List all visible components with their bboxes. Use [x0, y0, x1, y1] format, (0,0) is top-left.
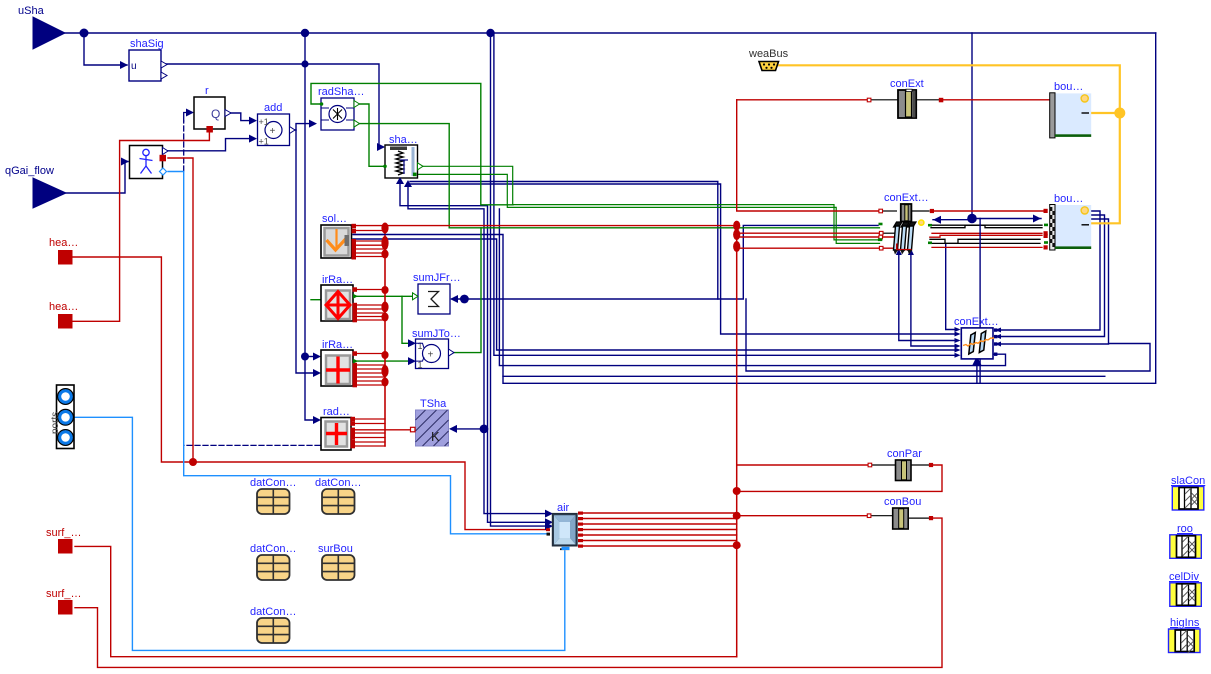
block conExtWinFra glass [954, 316, 999, 359]
arrow into irRa2 a [313, 353, 321, 361]
wire red bus to conExtWin row3 [737, 236, 897, 238]
wire black step conExtWin to bou2 b [931, 225, 1042, 228]
node red bus junction air [733, 541, 741, 549]
node sumJFr junction [460, 295, 469, 304]
block slaCon [1171, 475, 1205, 510]
node uSha junction 3 [486, 29, 494, 37]
wire red rad to TSha [353, 429, 410, 431]
wire sha long navy second to glass in2 [410, 184, 958, 334]
svg-text:hea…: hea… [49, 301, 78, 313]
wire glass bottom up arrow from long line [976, 362, 978, 383]
wire add output branch down to irRa2 second input [296, 130, 318, 373]
wire uSha to shaSig.u [84, 33, 127, 65]
svg-text:datCon…: datCon… [250, 543, 296, 555]
arrow into glass right 1 [995, 328, 1001, 333]
wire glass right lower stub loop back left [499, 209, 1005, 366]
block conBou [867, 496, 933, 529]
svg-text:1: 1 [418, 341, 423, 351]
wire cyan figure block latent to air side stub [168, 172, 546, 534]
wire yellow branch to bou1 [1089, 112, 1120, 114]
block datCon3 [250, 543, 296, 580]
svg-text:u: u [131, 61, 137, 72]
block sumJTo [412, 328, 461, 370]
block roo [1170, 523, 1202, 558]
node red bus junction win1 [733, 229, 740, 240]
wire sol top navy long loop via right edge [353, 33, 1156, 383]
svg-text:sha…: sha… [389, 134, 418, 146]
svg-text:roo: roo [1177, 523, 1193, 535]
wire qGai_flow to figure block [66, 162, 128, 194]
connector hea1 [49, 237, 78, 265]
wire red sol stub rows [354, 230, 385, 232]
node uSha junction 1 [80, 29, 89, 38]
wire red air outputs to bus 7 lines [583, 512, 737, 514]
ARROW-HEADS [120, 61, 1041, 530]
wire navy loop from sumJFr row down around to nest corner [746, 299, 1150, 371]
wire red vertical bus main right [736, 226, 738, 657]
svg-text:+: + [428, 350, 434, 361]
arrow into radSha [309, 120, 317, 128]
arrow into shaSig.u [120, 61, 128, 69]
connector surf1 [46, 527, 81, 554]
svg-text:datCon…: datCon… [250, 606, 296, 618]
node red bus junction conBou [733, 512, 741, 520]
wire green irRa1 to sumJFr [353, 295, 415, 297]
node shaSig line junction [301, 60, 308, 67]
wire sha bottom port 1 to air input 2 [400, 181, 548, 522]
wire TSha measurement line [451, 428, 484, 430]
wire solid top of dashed into r input [184, 113, 189, 122]
arrow into add.u1 [249, 117, 257, 125]
arrow into sumJFr right [450, 295, 458, 303]
svg-text:conExt…: conExt… [884, 192, 929, 204]
svg-text:conBou: conBou [884, 496, 921, 508]
wire sumJFr line to glass block input 1 [452, 225, 878, 299]
wire red bus to conExt [737, 99, 867, 101]
svg-text:sumJFr…: sumJFr… [413, 272, 461, 284]
block sol [321, 213, 356, 260]
svg-text:+: + [270, 126, 276, 137]
arrow into glass in5 [955, 348, 961, 353]
svg-text:TSha: TSha [420, 398, 447, 410]
block r [194, 85, 231, 133]
wire branch arrow into irRa2 [305, 356, 318, 358]
wire black conExtWin left row1 [883, 210, 896, 212]
wire green sumJTo output up joining long green [450, 228, 481, 353]
block irRa2 [321, 339, 358, 387]
wire red conExtWin row1 to bou2 [932, 210, 1044, 212]
wire uSha main top line [65, 32, 1156, 34]
wire cyan ports loop to air bottom [75, 417, 565, 650]
wire green radSha out2 long to conExtWin [354, 124, 879, 228]
arrow into add.u2 [249, 135, 257, 143]
wire green radSha out1 to sha [354, 104, 383, 166]
wire yellow weaBus to bou blocks [778, 65, 1120, 223]
svg-text:bou…: bou… [1054, 81, 1083, 93]
svg-text:surf_…: surf_… [46, 527, 81, 539]
wire uSha vertical to window shade junction [971, 33, 973, 219]
wire red straight conExtWin to bou2 c [932, 232, 1042, 234]
input qGai_flow [5, 165, 66, 208]
block sha [383, 134, 423, 187]
arrow into sumJTo in1 [408, 339, 416, 347]
wire shade junction right arrow into bou2 [972, 218, 1041, 220]
wire red step conExtWin to bou2 d [930, 235, 1042, 237]
wire red heaPorAir hea1 to air line [73, 257, 548, 530]
wire uSha branch down right of conExtWin [979, 219, 981, 384]
wire red conExt to bou1 [941, 99, 1050, 101]
arrow into TSha right [449, 425, 457, 433]
wire sha bottom port 2 to air input 1 [408, 184, 548, 514]
wire dashed from rad row up into r input [184, 444, 320, 446]
wire black step conExtWin to bou2 e [930, 239, 1040, 243]
block radSha [318, 86, 364, 130]
arrow into glass right 2 [995, 334, 1001, 339]
wire green irRa1 left stub [311, 299, 321, 301]
svg-text:Q: Q [211, 107, 220, 121]
node yellow junction [1114, 108, 1125, 119]
arrow into irRa2 b [313, 369, 321, 377]
arrow into air 3 [545, 522, 553, 530]
svg-text:qGai_flow: qGai_flow [5, 165, 54, 177]
node red junction hea [189, 458, 197, 466]
wire red bus to conExtWin row4 [737, 247, 897, 249]
input uSha [18, 5, 65, 49]
svg-text:datCon…: datCon… [315, 477, 361, 489]
wire sol second navy loop to glass block in5 [353, 239, 958, 350]
arrow into sumJTo in2 [408, 357, 416, 365]
node uSha window junction [967, 214, 977, 224]
wire bou2 right to glass right stub 1 [996, 211, 1100, 330]
svg-text:rad…: rad… [323, 406, 350, 418]
arrow up into conExtWin bottom b [908, 249, 914, 256]
wire navy sol stub rows [354, 234, 385, 236]
wire conExtWin bottom left to glass in3 [899, 254, 958, 341]
wire long mid horizontal row [503, 375, 1105, 377]
block sumJFr [413, 272, 461, 314]
svg-text:weaBus: weaBus [748, 48, 789, 60]
wire dashed visible above figure block [183, 121, 185, 171]
block celDiv [1169, 571, 1201, 606]
svg-text:surf_…: surf_… [46, 588, 81, 600]
svg-text:irRa…: irRa… [322, 339, 353, 351]
wire vertical down to glass in1 [946, 243, 958, 329]
wire red bus385 vertical [384, 226, 386, 446]
node uSha junction 2 [301, 29, 309, 37]
svg-text:surBou: surBou [318, 543, 353, 555]
wire black step conExtWin to bou2 a [931, 225, 1042, 228]
wire green sha out2 long to conExtWin port [415, 174, 880, 243]
svg-text:uSha: uSha [18, 5, 45, 17]
svg-text:hea…: hea… [49, 237, 78, 249]
node red bus junction win0 [733, 221, 740, 231]
arrow into bou2 shade right [1033, 215, 1041, 223]
svg-text:higIns: higIns [1170, 617, 1200, 629]
wire shaSig.y1 to sha input [161, 64, 383, 147]
wire red figure block heat to junction [168, 158, 193, 462]
svg-text:sumJTo…: sumJTo… [412, 328, 461, 340]
wire green irRa2 to sumJTo in2 [354, 360, 412, 362]
block datCon1 [250, 477, 296, 514]
wire green branch to sumJTo in1 [402, 296, 412, 343]
arrow into conExtWin shade left [933, 216, 941, 224]
svg-text:bou…: bou… [1054, 193, 1083, 205]
block figure heat gain [130, 146, 169, 179]
wire black conExt left port [869, 99, 898, 101]
connector surf2 [46, 588, 81, 615]
arrow into figure block [121, 158, 129, 166]
wire red vertical bus top segment into conExtWin row1 [737, 100, 878, 211]
svg-text:sol…: sol… [322, 213, 347, 225]
block conExt [867, 78, 943, 118]
block surBou [318, 543, 355, 580]
node red bus385 blobs [381, 223, 388, 234]
node TSha junction [480, 425, 489, 434]
svg-text:+1: +1 [259, 137, 269, 147]
connector ports [50, 385, 74, 449]
wire red conBou loop [737, 515, 867, 517]
wire top branch down to glass in6 [494, 33, 958, 355]
arrow into glass in4 [955, 344, 961, 349]
wire bou2 right to glass right stub 3 [996, 219, 1109, 344]
connector hea2 [49, 301, 78, 329]
svg-text:slaCon: slaCon [1171, 475, 1205, 487]
arrow into glass right 3 [995, 342, 1001, 347]
block add [258, 102, 296, 147]
arrow into sha [377, 143, 385, 151]
block TSha [411, 398, 449, 446]
svg-text:datCon…: datCon… [250, 477, 296, 489]
wire green sha out1 long to conExtWin port [418, 166, 879, 240]
wire red irRa2 stub rows [355, 353, 385, 355]
node irRa2 branch junction [301, 353, 309, 361]
wire green radSha left loop [311, 83, 513, 204]
svg-text:celDiv: celDiv [1169, 571, 1199, 583]
node red bus junction conPar [733, 487, 741, 495]
wire red conPar loop [737, 464, 868, 466]
node red bus junction win2 [733, 241, 740, 252]
block higIns [1169, 617, 1201, 653]
arrow into air 1 [545, 510, 553, 518]
svg-text:conExt: conExt [890, 78, 924, 90]
svg-text:add: add [264, 102, 282, 114]
svg-text:irRa…: irRa… [322, 274, 353, 286]
svg-text:conPar: conPar [887, 448, 922, 460]
svg-text:air: air [557, 502, 570, 514]
arrow into r input [186, 109, 194, 117]
wire black step conExtWin to bou2 f [930, 239, 1040, 243]
wire red irRa1 stub rows [355, 289, 385, 291]
wire red straight conExtWin to bou2 g [932, 246, 1042, 248]
wire r.Q to add.u1 [226, 113, 253, 121]
wire red hea2 up to r block square [73, 131, 209, 321]
block air [546, 502, 583, 550]
wire black conExtWin right row1 [911, 210, 929, 212]
block bou2 [1044, 193, 1092, 250]
wire bou2 right to glass right stub 2 [996, 215, 1105, 337]
wire red bus to conExtWin row2 [737, 232, 879, 234]
arrow into glass in2 [955, 332, 961, 337]
wire figure output to add.u2 [163, 139, 253, 151]
block conExtWin [878, 192, 934, 255]
wire red surf1 to bus bottom [75, 546, 737, 656]
arrow into glass in6 [955, 353, 961, 358]
block irRa1 [321, 274, 358, 322]
wire uSha branch down mid bundle to air input 3 [491, 33, 549, 526]
block datCon2 [315, 477, 361, 514]
svg-text:conExt…: conExt… [954, 316, 999, 328]
wire uSha branch down to irRa2 and rad [305, 33, 318, 420]
arrow into glass in1 [955, 327, 961, 332]
block shaSig [129, 38, 167, 81]
wire black conExt right port [916, 99, 939, 101]
svg-text:shaSig: shaSig [130, 38, 164, 50]
arrow up into glass bottom [972, 356, 981, 365]
svg-text:K: K [431, 429, 440, 444]
wire conExtWin bottom right to glass in4 [911, 254, 958, 347]
JUNCTION-DOTS [80, 29, 1126, 550]
svg-text:+1: +1 [259, 117, 269, 127]
block rad [321, 406, 355, 450]
arrow up into conExtWin bottom a [896, 249, 902, 256]
wire red rad stub rows [355, 418, 385, 420]
svg-text:radSha…: radSha… [318, 86, 364, 98]
wire add output down to radSha input [290, 124, 312, 130]
svg-text:r: r [205, 85, 209, 97]
wire sha long navy to right then down [410, 182, 718, 300]
block bou1 [1050, 81, 1092, 138]
connector weaBus [748, 48, 789, 71]
arrow into rad [313, 416, 321, 424]
block datCon5 [250, 606, 296, 643]
block conPar [868, 448, 933, 481]
wire red sol long row [354, 225, 737, 227]
arrow into air 2 [545, 518, 553, 526]
arrow into glass in3 [955, 338, 961, 343]
svg-text:ports: ports [50, 412, 61, 434]
wire shade junction left arrow into conExtWin [933, 219, 972, 221]
